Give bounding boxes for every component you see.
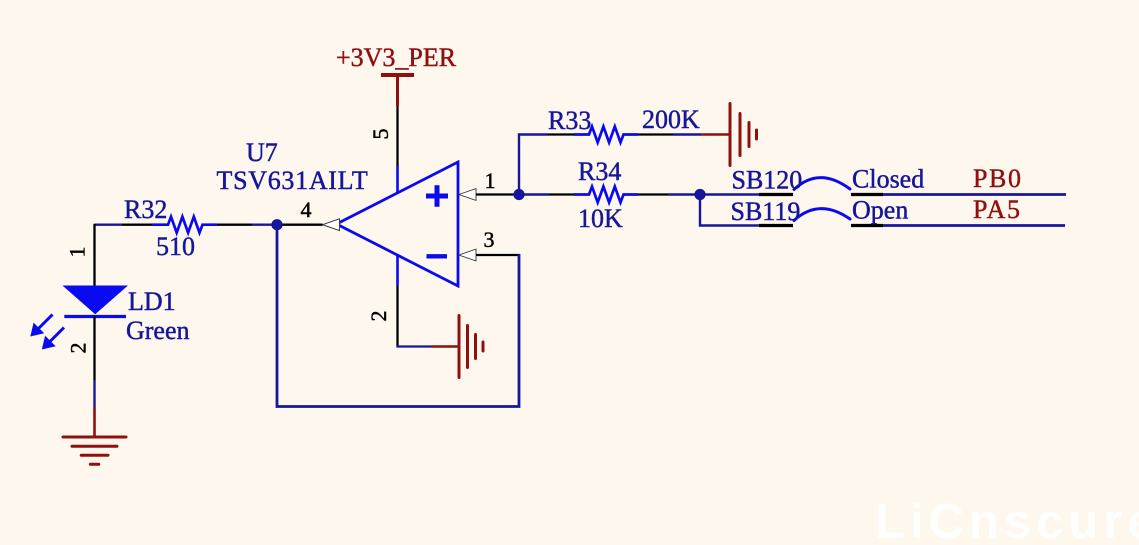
op-amp U7 triangle body	[337, 162, 459, 286]
wire pin1 to node B (black)	[476, 193, 514, 195]
svg-text:U7: U7	[246, 138, 278, 167]
wire node C drop to SB119 row (navy)	[700, 195, 759, 226]
LED light arrow 2	[50, 328, 64, 342]
svg-text:1: 1	[65, 247, 90, 258]
svg-text:PA5: PA5	[973, 195, 1022, 224]
svg-text:200K: 200K	[642, 105, 700, 134]
ground stub at pin2 (red)	[431, 345, 458, 348]
wire R32 corner to zigzag (navy)	[95, 223, 123, 225]
ground stub under LED (red)	[93, 407, 96, 437]
ground symbol under LED	[63, 437, 126, 464]
LED light arrow 1	[39, 315, 53, 329]
resistor R33 zigzag	[574, 127, 638, 143]
pin 3 arrowhead	[459, 249, 476, 261]
solder bridge SB120 arc	[794, 178, 850, 190]
svg-text:SB120: SB120	[732, 166, 803, 195]
svg-text:+3V3_PER: +3V3_PER	[336, 43, 457, 72]
wire SB119 to PA5 (navy)	[883, 224, 1065, 227]
solder bridge SB120 left pad (black)	[759, 193, 793, 196]
svg-text:R32: R32	[124, 195, 167, 224]
resistor R34 left lead (black)	[549, 193, 574, 195]
svg-text:R34: R34	[578, 157, 621, 186]
svg-text:LiCnscuret: LiCnscuret	[875, 495, 1139, 545]
resistor R34 zigzag	[574, 187, 638, 203]
node C junction dot	[694, 189, 705, 200]
op-amp minus input marker	[427, 254, 448, 258]
svg-text:2: 2	[366, 311, 391, 322]
wire node B to R34 (navy)	[519, 193, 549, 195]
wire LED cathode down (black)	[93, 317, 95, 381]
node A junction dot	[271, 219, 282, 230]
resistor R32 zigzag	[152, 217, 217, 233]
resistor R33 left lead (black)	[548, 133, 574, 135]
svg-text:1: 1	[485, 168, 496, 193]
LED LD1 cathode bar	[64, 315, 126, 318]
svg-text:SB119: SB119	[731, 197, 801, 226]
solder bridge SB119 arc	[794, 209, 850, 221]
wire pin3 stub (black)	[476, 254, 520, 256]
svg-text:4: 4	[301, 197, 312, 222]
pin 1 arrowhead	[459, 189, 476, 201]
svg-text:2: 2	[66, 343, 91, 354]
solder bridge SB119 left pad (black)	[759, 224, 793, 227]
wire pin4 to node A (black)	[277, 224, 323, 226]
node B junction dot	[513, 189, 524, 200]
power +3V3_PER bar symbol	[381, 73, 414, 77]
svg-text:Closed: Closed	[852, 165, 924, 194]
svg-text:LD1: LD1	[128, 287, 176, 316]
svg-text:TSV631AILT: TSV631AILT	[217, 166, 369, 195]
wire R32 to node A (navy)	[252, 223, 277, 225]
wire R34 to node C (navy)	[668, 193, 700, 195]
power stub wire (red)	[396, 75, 399, 106]
feedback wire (navy) node A to pin3	[277, 225, 519, 407]
resistor R34 right lead (black)	[638, 193, 668, 195]
svg-text:R33: R33	[548, 106, 591, 135]
resistor R33 right lead (black)	[638, 133, 673, 135]
svg-text:3: 3	[484, 227, 495, 252]
resistor R32 right lead (black)	[217, 224, 252, 226]
svg-text:510: 510	[156, 232, 195, 261]
resistor R32 left lead (black)	[122, 224, 152, 226]
solder bridge SB119 right pad (black)	[851, 224, 883, 227]
svg-text:Green: Green	[126, 316, 190, 345]
op-amp U7 pin 5 stub (blue)	[396, 166, 399, 194]
op-amp U7 pin 2 stub (blue)	[396, 255, 399, 286]
ground stub at R33 (red)	[701, 133, 729, 136]
ground symbol at pin2 (rotated right)	[459, 316, 483, 378]
wire R32 corner down to LED (black)	[93, 224, 95, 286]
wire node B riser to R33 row (navy)	[519, 135, 548, 195]
wire pin5 vertical (black)	[396, 106, 398, 166]
svg-text:Open: Open	[852, 196, 908, 225]
svg-text:10K: 10K	[578, 204, 623, 233]
wire pin2 vertical (black)	[396, 286, 398, 347]
ground symbol at R33 (rotated right)	[730, 104, 757, 166]
pin 4 arrowhead	[323, 219, 340, 231]
wire SB120 to PB0 (navy)	[883, 193, 1066, 196]
op-amp plus input marker	[426, 185, 448, 207]
svg-text:5: 5	[368, 129, 393, 140]
wire R33 to ground (navy)	[673, 133, 701, 135]
svg-text:PB0: PB0	[973, 164, 1023, 193]
wire LED to ground (navy)	[93, 380, 95, 407]
wire pin2 horizontal (navy)	[396, 345, 431, 347]
LED LD1 triangle body	[62, 286, 128, 315]
wire node C to SB120 pad (navy)	[700, 193, 759, 195]
solder bridge SB120 right pad (black)	[851, 193, 883, 196]
